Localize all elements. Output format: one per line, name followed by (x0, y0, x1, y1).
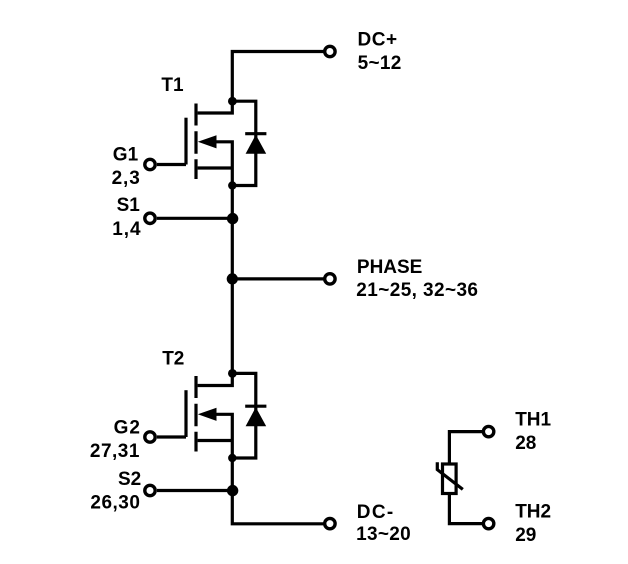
junction PHASE (227, 273, 238, 284)
wire drain lead T2 (198, 373, 233, 385)
svg-text:PHASE: PHASE (357, 257, 422, 278)
junction T2 source (228, 454, 236, 462)
wire S2 to DC- terminal (232, 491, 324, 524)
svg-text:DC+: DC+ (358, 29, 398, 50)
svg-text:TH1: TH1 (515, 410, 551, 431)
transistor T2 arrow (198, 408, 217, 421)
wire gate G1 to T1 (157, 163, 186, 166)
thermistor RT wire top (449, 432, 483, 464)
terminal TH2 (483, 518, 493, 528)
transistor T2 channel segments (194, 376, 197, 452)
svg-text:T2: T2 (162, 349, 184, 370)
wire PHASE terminal (232, 277, 324, 280)
thermistor RT wire bottom (449, 494, 483, 524)
svg-text:5~12: 5~12 (358, 53, 402, 74)
svg-text:13~20: 13~20 (356, 524, 411, 545)
svg-text:2,3: 2,3 (112, 168, 141, 189)
wire drain lead T1 (198, 101, 233, 113)
terminal G2 (145, 432, 155, 442)
transistor T2 source/body wire (213, 414, 232, 456)
svg-text:28: 28 (515, 433, 536, 454)
wire S2 (157, 489, 232, 492)
svg-text:27,31: 27,31 (90, 441, 140, 462)
transistor T2 gate electrode (184, 390, 187, 437)
wire source lead T2 (198, 439, 233, 442)
junction T1 source (228, 181, 236, 189)
svg-text:1,4: 1,4 (112, 219, 141, 240)
svg-text:G2: G2 (114, 418, 141, 439)
junction S2 (227, 485, 238, 496)
junction T2 drain (228, 369, 237, 378)
svg-text:29: 29 (515, 525, 536, 546)
thermistor RT body (443, 464, 457, 494)
svg-text:TH2: TH2 (515, 502, 551, 523)
terminal S2 (145, 485, 155, 495)
svg-text:S2: S2 (118, 469, 141, 490)
wire S1 (157, 217, 232, 220)
terminal TH1 (483, 426, 493, 436)
diode D1 cathode bar (245, 132, 266, 135)
diode D2 cathode bar (245, 405, 266, 408)
wire gate G2 to T2 (157, 435, 186, 438)
diode D1 triangle (246, 135, 267, 154)
diode D2 triangle (246, 407, 267, 426)
svg-text:26,30: 26,30 (90, 493, 140, 514)
wire bus T1 source to phase (231, 186, 234, 279)
terminal PHASE (325, 274, 335, 284)
wire source lead T1 (198, 166, 233, 169)
terminal G1 (145, 159, 155, 169)
junction S1 (227, 213, 238, 224)
transistor T1 gate electrode (184, 118, 187, 165)
wire phase to T2 drain (231, 279, 234, 373)
terminal S1 (145, 213, 155, 223)
svg-text:T1: T1 (161, 75, 184, 96)
diode D2 wires (232, 373, 256, 458)
terminal DC- (325, 518, 335, 528)
transistor T1 channel segments (194, 104, 197, 180)
junction T1 drain (228, 97, 237, 106)
diode D1 wires (232, 101, 256, 185)
wire T2 source to S2 (231, 458, 234, 491)
transistor T1 source/body wire (213, 142, 232, 184)
thermistor RT diagonal (437, 462, 463, 489)
svg-text:DC-: DC- (357, 502, 395, 523)
transistor T1 arrow (198, 135, 217, 148)
wire DC+ bus top (232, 52, 324, 102)
svg-text:21~25, 32~36: 21~25, 32~36 (356, 280, 478, 301)
svg-text:G1: G1 (113, 145, 139, 166)
terminal DC+ (325, 46, 335, 56)
svg-text:S1: S1 (117, 195, 141, 216)
